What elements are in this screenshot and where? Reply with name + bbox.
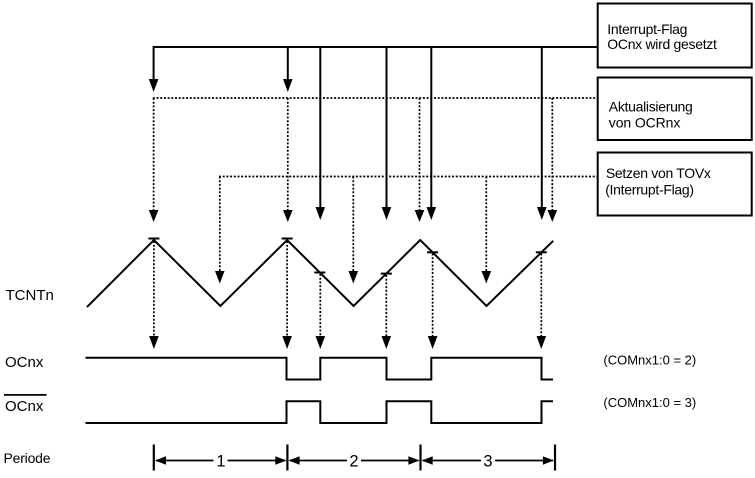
arrow: dashed arrow d (x=552.3)	[548, 98, 558, 222]
label: OCnx inverted with overline	[4, 394, 47, 396]
box: Aktualisierung von OCRnx	[598, 78, 752, 141]
waveform: OCnx (COMnx1:0 = 2)	[86, 358, 554, 380]
arrow: dashed connector slope tick x=386 to OCnx	[382, 275, 392, 349]
arrow: dashed connector peak1 to OCnx	[149, 241, 159, 349]
svg-text:Setzen von TOVx: Setzen von TOVx	[606, 165, 711, 181]
waveform: inverted OCnx (COMnx1:0 = 3)	[86, 401, 554, 423]
svg-text:OCnx: OCnx	[5, 354, 44, 371]
period scale: bar 2	[286, 445, 288, 471]
arrow: dashed arrow a (x=153.6 OCRnx update at TOP)	[149, 98, 159, 222]
svg-text:von OCRnx: von OCRnx	[609, 114, 681, 130]
period scale: bar 3	[419, 445, 421, 471]
arrow: solid arrow 5 (x=431.3)	[427, 46, 437, 220]
tick: tick on final rising slope	[536, 251, 547, 253]
svg-text:(COMnx1:0 = 3): (COMnx1:0 = 3)	[603, 395, 696, 410]
arrow: solid arrow 2 (x=287.8)	[283, 46, 293, 92]
box: Setzen von TOVx (Interrupt-Flag)	[598, 153, 752, 216]
waveform: TCNTn triangle wave	[87, 240, 553, 307]
tick: tick on rising slope before peak3	[381, 273, 392, 275]
arrow: dashed connector slope tick x=320 to OCnx	[316, 274, 326, 349]
svg-text:2: 2	[349, 453, 358, 471]
arrow: dashed TOV arrow 3 (x=486.3 valley3)	[482, 177, 492, 284]
arrow: solid arrow 1 (x=153.6, interrupt line to OCRnx line)	[149, 46, 159, 92]
arrow: solid arrow 6 (x=541.8)	[537, 46, 547, 220]
arrow: dashed arrow c (x=419.5)	[415, 98, 425, 222]
tick: tick on falling slope after peak2	[314, 272, 325, 274]
tick: compare-match tick at peak1	[148, 238, 159, 240]
period scale: bar 1	[153, 445, 155, 471]
box: Interrupt-Flag OCnx wird gesetzt	[598, 4, 752, 68]
svg-text:Aktualisierung: Aktualisierung	[609, 98, 693, 114]
wire: solid horizontal line from box "Interrupt-Flag OCnx wird gesetzt"	[154, 46, 597, 48]
svg-text:OCnx wird gesetzt: OCnx wird gesetzt	[607, 36, 717, 52]
tick: compare-match tick at peak2	[282, 238, 293, 240]
svg-text:(COMnx1:0 = 2): (COMnx1:0 = 2)	[603, 353, 696, 368]
arrow: dashed TOV arrow 2 (x=353.3 valley2)	[349, 177, 359, 284]
svg-text:(Interrupt-Flag): (Interrupt-Flag)	[605, 181, 694, 197]
wire: dashed horizontal line from box "Setzen von TOVx"	[219, 176, 597, 178]
arrow: dashed connector peak2 to OCnx	[282, 241, 292, 349]
svg-text:Periode: Periode	[4, 450, 51, 466]
svg-text:1: 1	[216, 453, 225, 471]
tick: tick on falling slope after peak3	[427, 251, 438, 253]
arrow: dashed arrow b (x=287.8)	[283, 98, 293, 222]
wire: dashed horizontal line from box "Aktualisierung von OCRnx"	[153, 97, 597, 99]
svg-text:Interrupt-Flag: Interrupt-Flag	[607, 21, 687, 37]
period 2 double arrow and label	[289, 453, 420, 471]
period 3 double arrow and label	[422, 453, 554, 471]
arrow: solid arrow 3 (x=320.3 down to waveform zone)	[316, 46, 326, 220]
svg-text:3: 3	[483, 453, 492, 471]
arrow: solid arrow 4 (x=386.5)	[382, 46, 392, 220]
arrow: dashed TOV arrow 1 (x=219.8 at BOTTOM valley1)	[215, 177, 225, 284]
svg-text:OCnx: OCnx	[5, 398, 44, 415]
period scale: bar 4	[554, 445, 556, 471]
arrow: dashed connector slope tick x=432.6 to OCnx	[428, 254, 438, 350]
arrow: dashed connector slope tick x=541.3 to OCnx	[537, 254, 547, 350]
svg-text:TCNTn: TCNTn	[6, 287, 54, 304]
period 1 double arrow and label	[155, 453, 286, 471]
